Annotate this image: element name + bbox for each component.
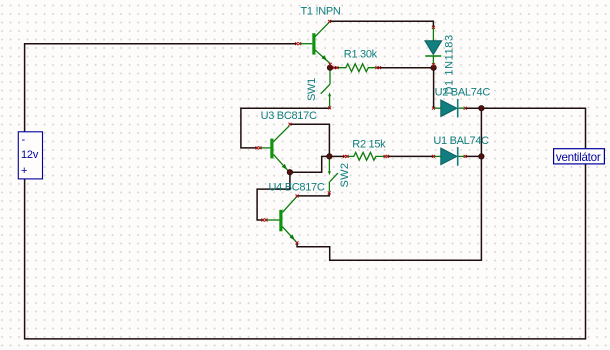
wire U1 cathode to junction [465, 155, 481, 157]
svg-text:U4 BC817C: U4 BC817C [269, 181, 325, 193]
svg-text:SW1: SW1 [306, 78, 318, 101]
pin marks of T1 (base, collector, emitter) [295, 20, 332, 66]
wire T1 collector to D1 anode [330, 21, 434, 27]
svg-text:U2 BAL74C: U2 BAL74C [435, 87, 491, 99]
svg-text:D1 1N1183: D1 1N1183 [444, 34, 456, 94]
transistor U3 [260, 126, 289, 172]
svg-text:R1 30k: R1 30k [344, 49, 378, 61]
switch SW2 [329, 156, 338, 191]
diode U1 BAL74C [434, 155, 440, 157]
svg-text:T1 !NPN: T1 !NPN [301, 6, 341, 18]
svg-text:U1 BAL74C: U1 BAL74C [433, 135, 489, 147]
wire J2 to R2 left [329, 155, 344, 157]
pin marks of U2 (anode, cathode) [432, 107, 467, 110]
pin marks of U4 (base, collector, emitter) [261, 195, 298, 245]
transistor U4 [266, 197, 296, 242]
wire battery top rail to T1 base [25, 44, 297, 132]
wire R1 right to D1 cathode junction and down to U2 anode [378, 68, 434, 108]
svg-text:-: - [22, 134, 26, 146]
junction dot U1/down net [479, 154, 484, 159]
pin marks of U3 (base, collector) [256, 123, 292, 150]
resistor R1 [338, 64, 377, 72]
wire R2 right to U1 anode [387, 155, 434, 157]
svg-text:ventilátor: ventilátor [556, 151, 601, 164]
pin mark of SW1 bottom [328, 106, 331, 109]
junction dot U2/ventilator [479, 106, 484, 111]
pin mark of SW2 bottom [328, 191, 331, 194]
junction dot U3 emitter [287, 170, 292, 175]
wire U3 collector to J2 [290, 124, 330, 156]
wire SW1 bottom to U3 base [241, 108, 330, 148]
ventilator box [554, 149, 605, 164]
wire ventilator top to U2 net [481, 108, 585, 149]
battery 12v box [18, 132, 42, 179]
pin marks of R2 [343, 155, 389, 158]
switch SW1 [321, 68, 330, 107]
diode D1 [432, 28, 434, 41]
wire SW2 bottom to U4 collector [297, 192, 329, 196]
svg-text:U3 BC817C: U3 BC817C [261, 110, 317, 122]
svg-text:R2 15k: R2 15k [352, 138, 386, 150]
transistor T1 [300, 22, 330, 63]
junction dot D1/R1/U2 [431, 65, 436, 70]
svg-text:12v: 12v [21, 149, 39, 161]
wire U3 emitter down to U4 base [257, 172, 290, 220]
wire J2 jog to U3 emitter junction [290, 156, 330, 172]
diode U2 BAL74C [434, 107, 440, 109]
junction dot T1 emitter/R1/SW1 [327, 65, 332, 70]
wire main down net from U2 junction through U1 junction to U4 emitter [297, 108, 481, 260]
wire U2 cathode to junction [465, 107, 481, 109]
junction dot J2 R2/SW2 [327, 154, 332, 159]
pin marks of U1 (anode, cathode) [432, 155, 467, 158]
svg-text:+: + [21, 165, 27, 177]
pin marks of R1 [333, 66, 382, 69]
wire emitter junction to R1 left [330, 63, 339, 67]
resistor R2 [347, 152, 384, 160]
pin marks of D1 (anode, cathode) [432, 26, 435, 66]
wire battery bottom / bottom rail / right rail up to ventilator [25, 164, 586, 339]
svg-text:SW2: SW2 [339, 163, 351, 188]
